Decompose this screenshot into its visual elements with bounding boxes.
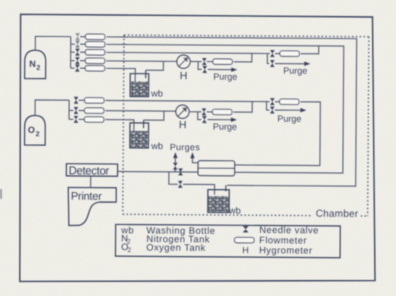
purge arrow up 1: [174, 156, 176, 163]
purge arrow up 2: [192, 156, 198, 162]
flowmeter O2 purge1: [212, 109, 232, 115]
flowmeter row2: [85, 42, 105, 48]
wire: H1 to purge tee: [190, 60, 198, 62]
scan smudge left edge: [0, 189, 2, 199]
wire: [267, 53, 269, 55]
needle valve on detector line: [179, 169, 183, 176]
needle valve row1: [76, 33, 80, 40]
needle valve row2: [76, 41, 80, 48]
flowmeter O2 purge2: [280, 99, 300, 105]
wire: detector line to cell: [118, 170, 198, 173]
needle valve N2 purge2 vent: [270, 60, 274, 67]
O2 purge2 junction on row1: [266, 102, 269, 110]
legend box: [115, 224, 340, 257]
flowmeter row4: [85, 58, 105, 64]
O2 tank: [25, 115, 46, 145]
purge arrow N2 branch1: [208, 68, 233, 70]
node: junction to lower line: [169, 172, 178, 184]
flowmeter N2 purge1: [213, 59, 233, 65]
wire: N2 row2 to right and down to cell: [106, 44, 344, 173]
wire: N2 purge2 flowmeter rises to row2: [301, 46, 319, 54]
wire: N2 row3 to purge junction: [106, 52, 267, 53]
printer: [68, 187, 116, 225]
wire: to hygrometer H1: [163, 60, 176, 62]
N2 manifold: [70, 37, 72, 68]
wire: O2 row1 to purge2 junction: [106, 100, 267, 101]
wire: O2 final to cell: [235, 101, 321, 165]
washing bottle wb3: [208, 185, 229, 212]
needle valve O2 purge2 line: [270, 98, 274, 105]
flowmeter O2 row2: [84, 108, 104, 114]
legend text left column: [120, 224, 215, 254]
wire: [275, 53, 280, 55]
wire stubs valve to flowmeter: [80, 37, 86, 69]
hygrometer H1: [177, 55, 190, 68]
purge1 O2 branch: [198, 112, 202, 120]
washing bottle wb1: [130, 70, 149, 97]
wire: [198, 61, 202, 63]
O2 manifold: [68, 100, 70, 119]
wire: N2 line rises to row3: [234, 53, 252, 62]
purge arrow O2 branch1: [208, 119, 233, 121]
flowmeter row3: [85, 50, 105, 56]
needle valve N2 purge2 line: [270, 50, 274, 57]
needle valve N2 purge1 line: [202, 58, 206, 65]
wire: N2 tank to manifold: [35, 36, 70, 50]
needle valve O2 row2: [74, 107, 78, 114]
wire: [207, 61, 213, 63]
purge arrow O2 branch2: [275, 109, 302, 111]
wire: lower line into wb3: [183, 184, 215, 194]
wire: detector to printer: [90, 176, 92, 187]
chamber dotted border: [123, 35, 369, 216]
wire purge vertical 1: [174, 169, 176, 172]
wire: [198, 111, 202, 113]
wire: [267, 101, 270, 103]
needle valve row5: [75, 65, 79, 72]
purge1 N2 branch: tee down, valve, arrow: [198, 62, 202, 70]
N2 tank: [25, 50, 46, 78]
legend symbols right column: [243, 226, 248, 232]
wire: O2 row3 into wb2 left tube: [105, 120, 134, 141]
wire: N2 row4 to wb1 merge: [106, 60, 163, 62]
wire: [275, 101, 280, 103]
wire stubs O2 rows: [79, 100, 85, 119]
wire: wb2 out rises to row2 line: [144, 111, 164, 120]
N2 purge2 junction on row3: [267, 54, 269, 64]
flowmeter row5: [85, 66, 105, 72]
flowmeter N2 purge2: [280, 51, 300, 57]
wire: H2 to purge tee: [189, 111, 198, 113]
wire: O2 row2 to wb2 merge and H2: [105, 110, 176, 112]
wire stubs N2 rows: [71, 43, 75, 45]
wire: wb1 out to H1 line: [146, 61, 164, 70]
needle valve lower line: [178, 181, 182, 188]
wire: O2 tank to manifold: [35, 100, 69, 116]
detector box: [66, 164, 117, 177]
purge arrow N2 branch2: [275, 63, 306, 65]
wire: N2 row1 to right and down to wb3 return: [105, 37, 356, 186]
washing bottle wb2: [130, 120, 149, 148]
needle valve purge vertical 1: [173, 163, 177, 170]
wire: [207, 111, 213, 113]
needle valve N2 purge1 vent: [203, 66, 207, 73]
wire: N2 row5 into wb1 left tube: [106, 68, 135, 91]
measuring cell box: [198, 161, 235, 176]
needle valve O2 row3: [74, 116, 78, 123]
needle valve O2 purge1 vent: [202, 116, 206, 123]
flowmeter O2 row3: [84, 117, 104, 123]
hygrometer H2: [176, 105, 189, 118]
flowmeter row1: [85, 34, 105, 40]
needle valve O2 row1: [74, 97, 78, 104]
needle valve row4: [75, 57, 79, 64]
needle valve row3: [75, 49, 79, 56]
wire: O2 line rises to row1: [233, 101, 252, 112]
needle valve O2 purge2 vent: [270, 107, 274, 114]
flowmeter O2 row1: [85, 98, 105, 104]
needle valve O2 purge1 line: [202, 109, 206, 116]
